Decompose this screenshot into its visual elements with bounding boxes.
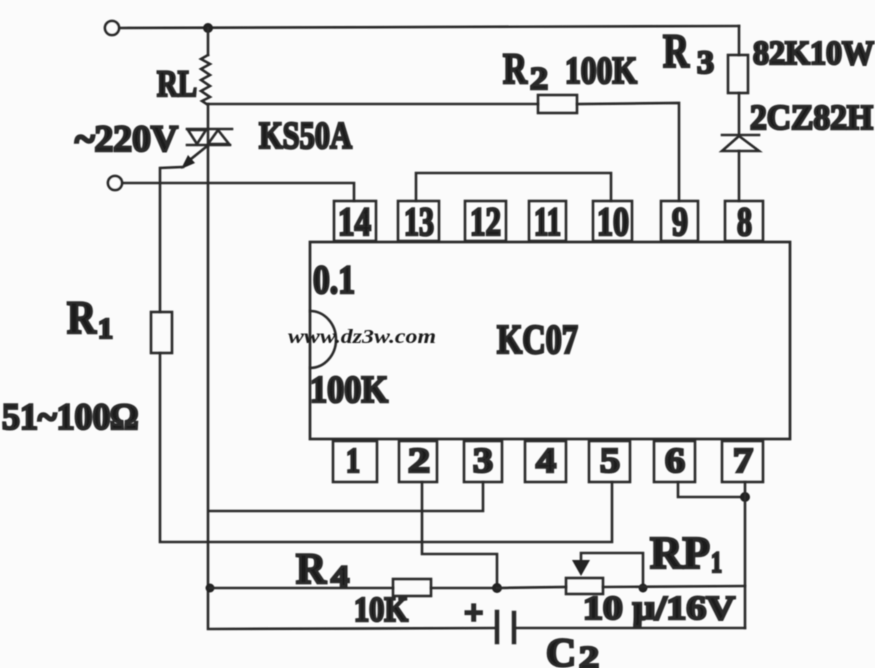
wire R1 bottom to pin5 bbox=[160, 353, 612, 542]
pin 13 bbox=[398, 199, 439, 244]
svg-text:12: 12 bbox=[470, 199, 501, 244]
svg-text:82K10W: 82K10W bbox=[753, 35, 874, 72]
wire main vertical (triac to bottom rail) bbox=[208, 146, 497, 629]
wire R3 to diode bbox=[738, 93, 741, 135]
terminal T2 (bottom mains input) bbox=[108, 176, 122, 190]
svg-text:0.1: 0.1 bbox=[313, 257, 355, 302]
svg-text:10: 10 bbox=[597, 199, 629, 244]
svg-text:1: 1 bbox=[711, 546, 722, 579]
svg-text:14: 14 bbox=[338, 199, 371, 244]
pin 2 bbox=[399, 441, 437, 482]
wire bottom rail right (C2 to right rail) bbox=[514, 627, 745, 630]
wire pin7 down right rail bbox=[744, 482, 747, 628]
pin 11 bbox=[529, 199, 566, 244]
capacitor C2 plates bbox=[495, 612, 500, 642]
svg-text:C: C bbox=[546, 630, 576, 668]
wire R4 right to junction bbox=[431, 587, 497, 590]
diode 2CZ82H bbox=[722, 135, 759, 151]
svg-text:2: 2 bbox=[408, 441, 430, 480]
wire node to R2 (horizontal) bbox=[208, 103, 538, 106]
wire diode to pin8 bbox=[738, 151, 741, 201]
wire T2 to pin14 bbox=[122, 183, 354, 201]
pin 10 bbox=[593, 199, 632, 244]
wire R2 right to pin9 bbox=[577, 103, 679, 201]
wire pin6 to pin7 vertical bbox=[678, 482, 745, 497]
pin 4 bbox=[525, 441, 566, 482]
svg-text:4: 4 bbox=[331, 560, 349, 593]
svg-text:2: 2 bbox=[579, 639, 599, 668]
svg-text:100K: 100K bbox=[310, 369, 388, 411]
svg-text:~220V: ~220V bbox=[75, 119, 178, 160]
svg-text:www.dz3w.com: www.dz3w.com bbox=[288, 326, 436, 348]
svg-text:13: 13 bbox=[404, 199, 434, 244]
svg-text:RP: RP bbox=[650, 527, 710, 578]
resistor R4 (box) bbox=[393, 579, 431, 596]
svg-text:11: 11 bbox=[534, 199, 561, 244]
wire top rail from T1 to R3 corner bbox=[119, 26, 739, 28]
wire RP1 right to rail bbox=[603, 586, 745, 587]
svg-text:5: 5 bbox=[600, 441, 620, 480]
node junction dot R4 left bbox=[206, 584, 215, 593]
svg-text:R: R bbox=[503, 46, 528, 93]
svg-text:1: 1 bbox=[98, 313, 113, 345]
svg-text:51~100Ω: 51~100Ω bbox=[2, 397, 138, 438]
pin 12 bbox=[465, 199, 506, 244]
node junction dot at RL top bbox=[203, 23, 213, 33]
svg-text:KC07: KC07 bbox=[497, 316, 578, 362]
wire R3 top lead bbox=[738, 26, 741, 55]
pin 8 bbox=[725, 199, 763, 244]
pin 7 bbox=[722, 441, 763, 482]
svg-text:R: R bbox=[663, 25, 690, 78]
svg-text:8: 8 bbox=[737, 199, 752, 244]
wire pin2 branch bbox=[422, 482, 497, 588]
node junction dot pin6/pin7 bbox=[740, 492, 750, 502]
svg-text:10 μ/16V: 10 μ/16V bbox=[583, 590, 736, 627]
wire RL top lead bbox=[207, 28, 210, 55]
resistor R1 (box) bbox=[151, 312, 172, 353]
pin 9 bbox=[661, 199, 698, 244]
svg-text:4: 4 bbox=[536, 441, 556, 480]
svg-text:R: R bbox=[67, 292, 97, 344]
wire RL bottom to triac bbox=[207, 104, 210, 129]
svg-text:2: 2 bbox=[530, 60, 548, 96]
pin 3 bbox=[464, 441, 502, 482]
triac V KS50A bbox=[187, 129, 232, 146]
IC notch (left semicircle) bbox=[310, 311, 336, 368]
svg-text:RL: RL bbox=[157, 64, 197, 105]
wire pin13-pin10 bracket bbox=[416, 173, 611, 201]
RP1 wiper arrow bbox=[581, 553, 643, 588]
pin 1 bbox=[333, 441, 377, 482]
potentiometer RP1 (box) bbox=[566, 578, 603, 594]
wire pin3 branch bbox=[209, 482, 483, 511]
resistor R2 (box) bbox=[538, 95, 577, 113]
svg-text:1: 1 bbox=[346, 441, 360, 480]
IC body KC07 bbox=[310, 242, 790, 439]
svg-text:10K: 10K bbox=[354, 590, 408, 629]
svg-text:3: 3 bbox=[473, 441, 493, 480]
resistor R3 (box) bbox=[728, 55, 748, 93]
svg-text:6: 6 bbox=[665, 441, 685, 480]
wire junction to RP1 bbox=[497, 587, 566, 588]
svg-text:9: 9 bbox=[672, 199, 688, 244]
pin 14 bbox=[334, 199, 376, 244]
triac gate wire with arrowhead bbox=[186, 147, 206, 163]
node junction dot R4/RP1/pin2 bbox=[492, 583, 502, 593]
svg-text:+: + bbox=[464, 595, 483, 632]
node junction dot wiper bbox=[639, 584, 648, 593]
svg-text:KS50A: KS50A bbox=[259, 115, 352, 157]
svg-text:3: 3 bbox=[697, 45, 714, 81]
pin 6 bbox=[654, 441, 695, 482]
svg-text:7: 7 bbox=[733, 441, 753, 480]
svg-text:100K: 100K bbox=[565, 50, 637, 92]
svg-text:R: R bbox=[296, 546, 327, 593]
svg-text:2CZ82H: 2CZ82H bbox=[750, 98, 873, 137]
wire R4 left segment bbox=[210, 587, 393, 590]
terminal T1 (top mains input) bbox=[105, 21, 119, 35]
inductor RL (load) zigzag bbox=[201, 55, 210, 105]
pin 5 bbox=[589, 441, 630, 482]
